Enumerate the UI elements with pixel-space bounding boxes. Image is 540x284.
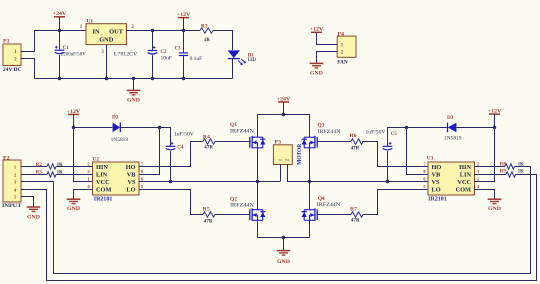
U2 pin name LIN [96,172,108,179]
LED D1 [228,50,246,65]
wire P4 pin2 to ground [317,52,338,63]
wire VS rail right [310,181,429,183]
svg-text:IRFZ44N: IRFZ44N [317,202,341,208]
wire U3 HIN to R8 [475,166,506,168]
wire C5 top / bootstrap rail B [388,128,447,146]
wire +12V to U3 VCC [475,128,495,182]
wire U2 COM to ground [74,190,93,199]
R3 designator [36,170,42,176]
svg-text:R6: R6 [350,133,357,139]
R7 designator [350,207,357,213]
U2 left pin numbers 2 3 1 4 [87,162,90,190]
svg-text:COM: COM [456,187,471,194]
wire Q3 drain [309,114,311,137]
U1 pin number 1 [80,25,83,30]
wire +12V stub B [494,114,496,127]
node C5 VS junction [386,180,389,183]
svg-text:OUT: OUT [109,28,124,35]
ground GND main [127,90,141,103]
node gnd stub junction [132,77,135,80]
svg-text:P1: P1 [3,38,10,44]
wire C3 top [183,31,185,53]
wire U1 OUT to +12V rail [127,30,201,32]
R4 designator [203,135,210,141]
svg-text:P2: P2 [3,155,10,161]
P3 value MOTOR [297,143,303,165]
node C1 gnd junction [58,77,61,80]
svg-text:R1: R1 [201,23,208,29]
transistor Q2 IRFZ44N [250,208,266,221]
svg-text:MOTOR: MOTOR [297,143,303,165]
Q2 value IRFZ44N [230,203,254,209]
wire C2 top [152,31,154,50]
svg-text:Q3: Q3 [318,123,325,129]
wire +24V stub bridge [283,102,285,115]
svg-text:+12V: +12V [488,109,502,115]
svg-text:47R: 47R [204,144,214,150]
node VB tap A [158,126,161,129]
svg-text:Q1: Q1 [230,122,237,128]
ground GND input [27,207,41,220]
U1 pin name OUT [109,28,124,35]
svg-text:U1: U1 [87,18,94,24]
D3 value 1N5819 [444,136,462,142]
R1 value 1K [204,37,211,43]
wire C5 bottom to VS [387,151,389,182]
Q3 value IRFZ44N [318,129,341,135]
wire Q2 source [257,220,259,237]
node bridge top junction [282,113,285,116]
capacitor C4 [166,142,176,150]
R4 value 47R [204,144,214,150]
U2 pin name VCC [96,179,110,186]
svg-text:R4: R4 [203,135,210,141]
svg-text:COM: COM [96,187,111,194]
Q4 designator [318,196,325,202]
svg-text:IR2101: IR2101 [94,196,113,202]
P3 designator [275,140,282,146]
svg-text:IRFZ44N: IRFZ44N [230,203,254,209]
svg-text:LIN: LIN [96,172,108,179]
svg-text:IN: IN [93,28,100,35]
wire U2 VB to bootstrap [139,128,160,175]
svg-text:1uF/50V: 1uF/50V [366,130,386,136]
regulator U1 [86,24,127,45]
svg-text:GND: GND [488,206,501,212]
wire C4 bottom to VS [170,151,172,182]
wire bridge bottom rail [258,237,310,239]
svg-text:24V DC: 24V DC [3,67,22,73]
svg-text:1N5819: 1N5819 [111,137,129,143]
svg-text:R8: R8 [500,161,506,167]
svg-text:Q2: Q2 [230,196,237,202]
svg-text:U2: U2 [93,156,100,162]
wire gnd symbol stub [133,79,135,91]
C2 value 10uF [161,55,173,61]
U2 pin name LO [126,187,135,194]
svg-text:R5: R5 [203,207,210,213]
wire P3 pin2 [288,165,310,182]
wire P2 pin2 to R3 [21,174,47,176]
transistor Q3 IRFZ44N [302,136,318,149]
resistor R1 [200,28,213,33]
R6 value 47R [351,146,361,152]
svg-text:INPUT: INPUT [2,203,22,209]
svg-text:GND: GND [127,98,140,104]
svg-text:HIN: HIN [96,164,108,171]
svg-text:1K: 1K [57,162,64,168]
node +12V B junction [493,126,496,129]
svg-text:C4: C4 [177,145,183,151]
U3 pin name VS [432,179,441,186]
power +12V main [177,12,191,18]
ground GND bridge [277,251,291,266]
svg-text:2200uF/50V: 2200uF/50V [61,51,86,57]
resistor R7 [351,212,363,217]
svg-text:C1: C1 [63,45,69,51]
wire P3 pin1 [280,165,282,182]
wire U3 COM to ground [475,190,495,199]
resistor R3 [47,172,56,177]
wire D2 cathode to C4 [120,128,170,146]
U2 value IR2101 [94,196,113,202]
svg-text:C3: C3 [175,46,181,52]
connector P4 [337,36,356,57]
U3 pin name VCC [457,179,471,186]
resistor R6 [351,139,363,144]
svg-text:LO: LO [432,187,441,194]
U3 pin name COM [456,187,471,194]
ground GND fan [310,63,324,76]
svg-text:VB: VB [432,172,442,179]
P2 designator [3,155,10,161]
node C3 gnd junction [182,77,185,80]
power +12V driver B [488,109,502,115]
U3 pin name LIN [460,172,472,179]
P1 value label 24V DC [3,67,22,73]
wire +24V stub [59,17,61,31]
resistor R8 [505,164,515,169]
power +12V driver A [67,109,81,115]
U2 pin name COM [96,187,111,194]
R7 value 47R [351,217,361,223]
node C2 top junction [151,29,154,32]
R3 value 1K [57,170,64,176]
node bridge mid-right junction [308,180,311,183]
U1 pin number 3 [101,50,104,55]
wire R9 loop to P2 pin4 [21,175,537,281]
svg-text:L7812CV: L7812CV [114,52,138,58]
node bootstrap A junction [72,126,75,129]
connector P3 [273,145,292,165]
diode D3 1N5819 [448,123,457,133]
svg-text:GND: GND [99,37,114,44]
U2 right pin numbers 7 8 6 5 [141,162,144,190]
svg-text:2: 2 [285,159,290,161]
wire D2 anode [74,127,113,129]
svg-text:VS: VS [432,179,441,186]
Q4 value IRFZ44N [317,202,341,208]
svg-text:P4: P4 [338,31,345,37]
wire U3 VB to bootstrap [407,128,429,175]
resistor R9 [506,172,516,177]
svg-text:R3: R3 [36,170,42,176]
svg-text:1: 1 [277,159,282,161]
ground GND U2 [67,199,81,212]
P1 pin numbers [14,50,17,63]
svg-text:1uF/50V: 1uF/50V [174,132,194,138]
resistor R5 [203,212,215,217]
wire C1 bottom [59,55,61,79]
R5 value 47R [204,218,214,224]
D1 designator [248,52,254,58]
P4 value FAN [337,59,348,65]
U3 pin name LO [432,187,441,194]
node +24V rail junction [58,29,61,32]
C5 designator [391,131,397,137]
U1 value L7812CV [114,52,138,58]
capacitor C1 [55,46,65,54]
transistor Q1 IRFZ44N [250,136,266,149]
Q1 designator [230,122,237,128]
power +12V fan [310,27,324,33]
wire R5 to Q2 gate [215,214,250,216]
driver U3 IR2101 [428,162,475,195]
ground GND U3 [488,199,502,212]
wire U1 GND pin [106,45,108,79]
svg-text:+24V: +24V [53,11,67,17]
C3 value 0.1uF [190,56,203,62]
svg-text:GND: GND [277,259,290,265]
svg-text:10uF: 10uF [161,55,173,61]
power +24V bridge [277,96,291,102]
svg-text:47R: 47R [351,217,361,223]
C4 value 1uF/50V [174,132,194,138]
Q3 designator [318,123,325,129]
U3 left pin numbers 7 8 6 5 [423,162,426,190]
svg-text:GND: GND [67,206,80,212]
wire R6 to U3 HO [363,142,428,167]
capacitor C3 [179,53,188,56]
wire R4 to Q1 gate [215,141,250,143]
capacitor C5 [383,142,393,150]
svg-text:47R: 47R [351,146,361,152]
R2 value 1K [57,162,64,168]
svg-text:VCC: VCC [96,179,110,186]
C4 designator [177,145,183,151]
wire Q1 drain [257,115,259,138]
R9 value 1K [518,169,525,175]
node U1 gnd junction [105,77,108,80]
R2 designator [36,162,42,168]
R8 designator [500,161,506,167]
C5 value 1uF/50V [366,130,386,136]
svg-text:+12V: +12V [177,12,191,18]
svg-text:VS: VS [127,179,136,186]
svg-text:IR2101: IR2101 [428,196,447,202]
svg-text:0.1uF: 0.1uF [190,56,203,62]
wire P2 pin5 to ground [21,197,34,207]
C3 designator [175,46,181,52]
R9 designator [500,169,506,175]
power +24V [53,11,67,17]
wire P2 pin1 to R2 [21,166,47,168]
P1 designator label [3,38,10,44]
U2 pin name HIN [96,164,108,171]
U3 designator [427,155,434,161]
wire ground rail [35,78,233,80]
wire Q1 source to Q2 drain [257,148,259,210]
wire U2 VS rail [139,181,280,183]
svg-text:VCC: VCC [457,179,471,186]
wire U2 HO to R4 [139,142,203,167]
C2 designator [161,49,167,55]
svg-text:U3: U3 [427,155,434,161]
U3 pin name HO [432,164,442,171]
svg-text:GND: GND [310,71,323,77]
wire C2 bottom [152,55,154,78]
U2 pin name VB [127,172,137,179]
R5 designator [203,207,210,213]
svg-text:C2: C2 [161,49,167,55]
wire U2 LO to R5 [139,190,203,215]
svg-text:LO: LO [126,187,135,194]
P4 designator [338,31,345,37]
P3 pin numbers [277,159,289,161]
svg-text:R2: R2 [36,162,42,168]
wire LED cathode to ground rail [232,58,234,78]
wire C3 bottom [183,56,185,79]
connector P1 [3,44,21,66]
P2 value INPUT [2,203,22,209]
transistor Q4 IRFZ44N [302,208,318,221]
node bridge gnd junction [282,236,285,239]
D2 value 1N5819 [111,137,129,143]
wire P1 pin1 to +24V rail [21,31,86,52]
diode D2 1N5819 [113,123,121,133]
wire Q3 source to Q4 drain [309,148,311,210]
D2 designator [112,114,119,120]
U2 designator [93,156,100,162]
wire bridge gnd stub [283,238,285,251]
wire C1 top [59,31,61,50]
P4 pin numbers [341,44,344,56]
svg-text:IRFZ44N: IRFZ44N [230,129,254,135]
R6 designator [350,133,357,139]
U2 pin name VS [127,179,136,186]
Q2 designator [230,196,237,202]
wire +12V to P4 pin1 [317,32,338,44]
U1 pin name IN [93,28,100,35]
svg-text:GND: GND [27,214,40,220]
svg-text:1K: 1K [518,169,525,175]
svg-text:LIN: LIN [460,172,472,179]
wire U3 LIN to R9 [475,174,507,176]
svg-text:P3: P3 [275,140,282,146]
U1 pin number 2 [131,25,134,30]
svg-text:IRFZ44N: IRFZ44N [318,129,341,135]
D3 designator [447,115,454,121]
Q1 value IRFZ44N [230,129,254,135]
wire +12V to U2 VCC [74,114,93,181]
wire R7 to U3 LO [363,190,428,215]
P2 pin numbers 1-5 [14,164,17,199]
svg-text:C5: C5 [391,131,397,137]
node VB tap B [405,126,408,129]
svg-text:HO: HO [126,164,136,171]
C1 designator [63,45,69,51]
wire R3 to U2 LIN [56,174,93,176]
resistor R2 [47,164,56,169]
svg-text:47R: 47R [204,218,214,224]
U1 designator [87,18,94,24]
svg-text:+12V: +12V [310,27,324,33]
node C4 VS junction [169,180,172,183]
U3 pin name HIN [459,164,471,171]
svg-text:HO: HO [432,164,442,171]
node bridge mid-left junction [256,180,259,183]
U3 right pin numbers 2 3 1 4 [477,162,480,190]
wire R2 to U2 HIN [56,166,93,168]
svg-text:HIN: HIN [459,164,471,171]
wire bridge top rail [258,114,310,116]
U3 value IR2101 [428,196,447,202]
svg-text:VB: VB [127,172,137,179]
connector P2 [3,160,21,202]
wire D3 anode to +12V [457,127,495,129]
svg-text:D2: D2 [112,114,119,120]
wire R8 loop to P2 pin3 [21,167,531,274]
svg-text:+12V: +12V [67,109,81,115]
svg-text:D3: D3 [447,115,454,121]
R1 designator [201,23,208,29]
U2 pin name HO [126,164,136,171]
svg-text:R9: R9 [500,169,506,175]
driver U2 IR2101 [93,162,140,195]
node C2 gnd junction [151,77,154,80]
wire R1 to LED [213,31,233,51]
svg-text:R7: R7 [350,207,357,213]
svg-text:1N5819: 1N5819 [444,136,462,142]
U1 pin name GND [99,37,114,44]
D1 value LED [248,57,256,63]
wire Q4 source [309,220,311,237]
svg-text:+24V: +24V [277,96,291,102]
R8 value 1K [518,161,525,167]
svg-text:FAN: FAN [337,59,348,65]
U3 pin name VB [432,172,442,179]
svg-text:1K: 1K [204,37,211,43]
wire +12V stub [183,18,185,31]
resistor R4 [203,139,215,144]
wire P1 pin2 to ground rail [21,59,35,79]
C1 value 2200uF/50V [61,51,86,57]
svg-text:LED: LED [248,57,256,63]
wire Q3 gate to R6 [317,141,351,143]
wire Q4 gate to R7 [317,214,351,216]
capacitor C2 [148,46,158,54]
node C3 top junction [182,29,185,32]
